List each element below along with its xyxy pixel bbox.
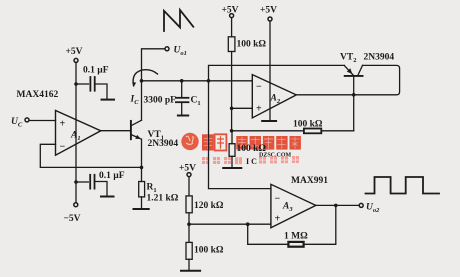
ground (A2) bbox=[262, 120, 276, 122]
wire Uo1 to collector node bbox=[142, 49, 165, 120]
waveform square wave symbol bbox=[366, 177, 440, 194]
node rail/cap junction bbox=[74, 82, 78, 86]
svg-text:1 MΩ: 1 MΩ bbox=[284, 232, 308, 242]
wire A1 output to VT1 base bbox=[101, 130, 130, 132]
svg-text:+: + bbox=[275, 214, 281, 225]
wire A2 supply rail through A2 bbox=[269, 21, 271, 120]
wire junction to A2 + input bbox=[232, 107, 253, 109]
wire divider tap to A3 + input bbox=[189, 223, 271, 225]
node divider tap bbox=[187, 222, 191, 226]
wire +5V to resistor bbox=[231, 18, 233, 37]
svg-text:100 kΩ: 100 kΩ bbox=[293, 120, 323, 130]
wire VT1 emitter down bbox=[141, 139, 143, 181]
node A2 + input junction bbox=[230, 107, 234, 111]
svg-text:−: − bbox=[60, 142, 66, 153]
node rail/cap junction lower bbox=[74, 180, 78, 184]
svg-text:100 kΩ: 100 kΩ bbox=[237, 144, 267, 154]
wire VT2 base vertical bbox=[353, 76, 355, 131]
ground (R1) bbox=[134, 208, 149, 210]
waveform sawtooth symbol bbox=[164, 10, 193, 31]
ground (100k) bbox=[223, 167, 241, 169]
ground (bottom bypass) bbox=[101, 196, 114, 198]
node C1 junction bbox=[180, 79, 184, 83]
capacitor 0.1uF (top bypass) bbox=[90, 77, 94, 91]
resistor 100k (hysteresis) bbox=[304, 129, 321, 134]
svg-text:2N3904: 2N3904 bbox=[364, 53, 395, 63]
svg-text:MAX991: MAX991 bbox=[291, 176, 328, 186]
node output/feedback junction bbox=[334, 204, 338, 208]
terminal Uo1 bbox=[165, 47, 169, 51]
terminal Uc input bbox=[25, 118, 29, 122]
wire -5V branch to bypass cap bbox=[76, 181, 88, 183]
svg-text:I C: I C bbox=[246, 157, 257, 166]
svg-text:+: + bbox=[60, 119, 66, 130]
node emitter junction bbox=[140, 166, 144, 170]
svg-text:+5V: +5V bbox=[179, 164, 196, 174]
node VT2 base junction bbox=[352, 93, 356, 97]
wire 120k to divider node bbox=[188, 213, 190, 243]
resistor R1 bbox=[139, 182, 145, 197]
node divider junction bbox=[230, 129, 234, 133]
power +5V terminal (mid) bbox=[230, 14, 234, 18]
svg-text:3300 pF: 3300 pF bbox=[144, 96, 177, 106]
wire resistor to A2 + node bbox=[231, 52, 233, 109]
op-amp A3 bbox=[271, 184, 316, 227]
wire 100k to ground bbox=[188, 259, 190, 270]
node main junction to VT2/A3 bbox=[207, 79, 211, 83]
svg-text:−5V: −5V bbox=[64, 214, 81, 224]
wire A2 + node row through 100k to VT2 base bbox=[232, 130, 304, 132]
op-amp A1 bbox=[56, 111, 101, 156]
svg-text:+5V: +5V bbox=[260, 6, 277, 16]
node collector junction bbox=[140, 79, 144, 83]
watermark text 电子市场网 bbox=[236, 136, 301, 150]
svg-text:−: − bbox=[275, 194, 281, 205]
wire +5V rail through A1 to -5V bbox=[75, 63, 77, 203]
resistor 100k (top pull-up) bbox=[228, 37, 235, 52]
wire 100k to ground bbox=[231, 156, 233, 167]
wire Uc to A1 + input bbox=[29, 120, 55, 122]
terminal Uo2 bbox=[359, 203, 363, 207]
svg-text:1.21 kΩ: 1.21 kΩ bbox=[147, 194, 179, 204]
resistor 100k (divider lower) bbox=[186, 242, 192, 259]
svg-text:0.1 µF: 0.1 µF bbox=[99, 171, 125, 181]
ground (C1) bbox=[178, 115, 188, 117]
wire A1 feedback loop bbox=[40, 144, 141, 167]
svg-text:2N3904: 2N3904 bbox=[148, 139, 179, 149]
watermark row 全球最大IC采购网站 bbox=[202, 156, 299, 166]
resistor 120k bbox=[186, 196, 192, 213]
svg-text:+: + bbox=[256, 104, 262, 115]
power +5V terminal (divider) bbox=[187, 173, 191, 177]
op-amp A2 bbox=[252, 75, 296, 118]
wire +5V to 120k bbox=[188, 177, 190, 196]
svg-text:120 kΩ: 120 kΩ bbox=[194, 201, 224, 211]
capacitor 0.1uF (bottom bypass) bbox=[90, 175, 94, 189]
wire A2 + node down to 100k bbox=[231, 131, 233, 144]
arrow Ic current bbox=[133, 70, 157, 86]
watermark logo disc bbox=[181, 133, 198, 150]
wire A2 output to VT2 base node and loop corner bbox=[296, 65, 399, 94]
resistor 100k (to ground) bbox=[229, 144, 235, 157]
wire cap to ground bbox=[95, 182, 108, 196]
wire main node to A2 inverting input bbox=[142, 80, 253, 82]
capacitor C1 bbox=[176, 81, 189, 115]
svg-text:100 kΩ: 100 kΩ bbox=[237, 40, 267, 50]
watermark text 维库 bbox=[202, 134, 226, 150]
wire node down to A3 inverting input bbox=[209, 81, 271, 189]
svg-text:0.1 µF: 0.1 µF bbox=[83, 66, 109, 76]
wire +5V to bypass cap bbox=[76, 83, 89, 85]
transistor VT2 bbox=[344, 65, 362, 76]
svg-text:100 kΩ: 100 kΩ bbox=[194, 246, 224, 256]
power +5V terminal (left) bbox=[74, 58, 78, 62]
svg-text:−: − bbox=[256, 82, 262, 93]
power -5V terminal bbox=[74, 203, 78, 207]
resistor 1M bbox=[288, 242, 303, 247]
node feedback tap bbox=[246, 222, 250, 226]
svg-text:MAX4162: MAX4162 bbox=[17, 90, 59, 100]
ground (divider) bbox=[181, 270, 200, 272]
wire node up and right to VT2 emitter bbox=[209, 65, 345, 80]
svg-text:+5V: +5V bbox=[66, 47, 83, 57]
svg-text:+5V: +5V bbox=[222, 6, 239, 16]
wire A3 output bbox=[316, 204, 359, 206]
wire cap to ground bbox=[95, 84, 107, 99]
power +5V terminal (A2 supply) bbox=[268, 17, 272, 21]
transistor VT1 bbox=[131, 120, 142, 139]
ground (top bypass) bbox=[102, 99, 115, 101]
wire feedback loop 1M bbox=[248, 224, 289, 244]
wire junction down bbox=[231, 108, 233, 131]
wire R1 to ground bbox=[141, 197, 143, 209]
